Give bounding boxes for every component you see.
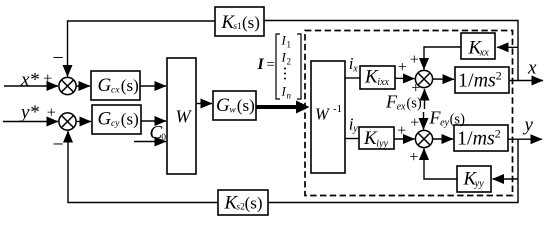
svg-text:iy: iy	[349, 114, 358, 134]
svg-text:+: +	[409, 149, 418, 166]
svg-text:+: +	[47, 105, 56, 122]
svg-text:+: +	[410, 52, 419, 69]
svg-text:I1: I1	[281, 33, 292, 50]
svg-text:ix: ix	[349, 54, 358, 74]
svg-text:+: +	[43, 70, 52, 87]
svg-text:x: x	[527, 58, 537, 79]
svg-text:I2: I2	[281, 50, 292, 67]
svg-text:+: +	[410, 115, 419, 132]
svg-text:I=: I=	[257, 56, 275, 73]
svg-text:Fey(s): Fey(s)	[429, 108, 466, 129]
svg-text:1/ms2: 1/ms2	[457, 127, 501, 150]
svg-text:W: W	[176, 107, 193, 127]
svg-text:y*: y*	[19, 102, 39, 123]
svg-text:x*: x*	[20, 70, 39, 91]
svg-text:+: +	[411, 80, 420, 97]
svg-text:−: −	[53, 133, 64, 155]
svg-text:y: y	[523, 115, 534, 136]
svg-text:In: In	[281, 84, 292, 101]
svg-text:+: +	[397, 123, 406, 140]
svg-text:−: −	[53, 47, 64, 69]
svg-text:1/ms2: 1/ms2	[458, 69, 502, 92]
svg-text:C0: C0	[150, 123, 167, 144]
svg-text:+: +	[398, 59, 407, 76]
